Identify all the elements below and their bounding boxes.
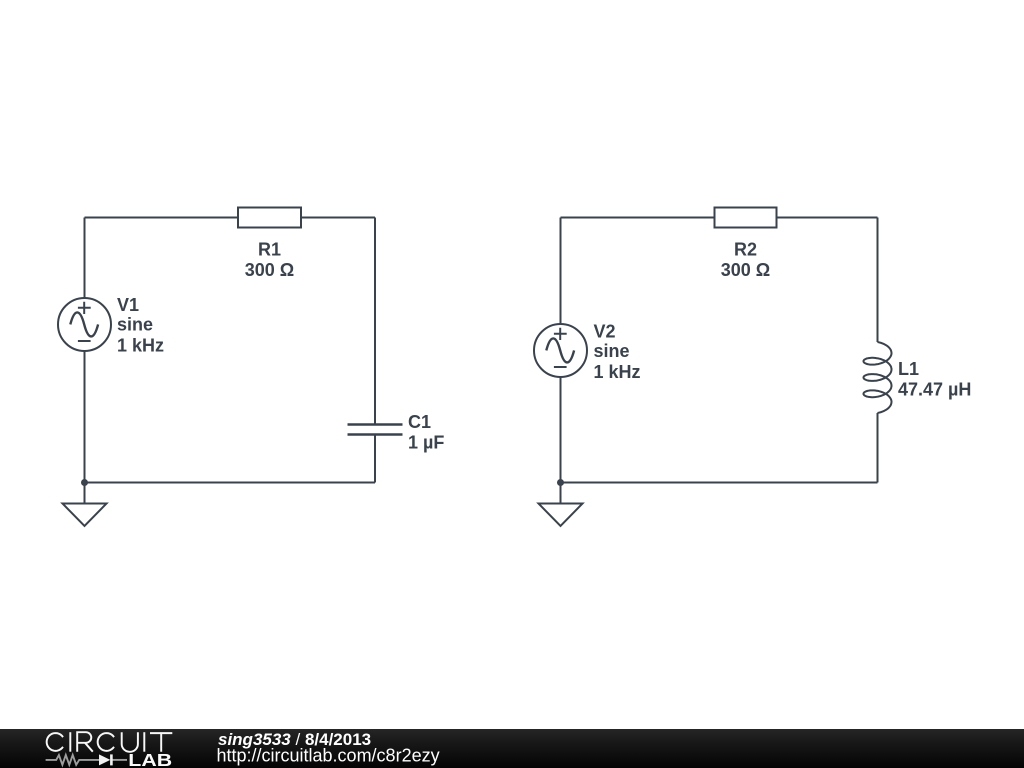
- svg-text:1 µF: 1 µF: [408, 433, 444, 453]
- svg-text:300 Ω: 300 Ω: [245, 260, 294, 280]
- wire: right side of left circuit above C1: [374, 218, 376, 424]
- logo resistor zigzag and wire: [46, 755, 127, 765]
- ground symbol right circuit: [539, 504, 583, 527]
- svg-text:V2: V2: [594, 322, 616, 342]
- svg-text:1 kHz: 1 kHz: [594, 362, 641, 382]
- voltage source V2 plus sign: [554, 328, 567, 340]
- wire: top of right circuit (V2 to R2 to L1 branch): [561, 217, 878, 219]
- svg-text:R1: R1: [258, 240, 281, 260]
- resistor R1: [238, 208, 301, 228]
- wire: left side below V1 to ground node: [84, 351, 86, 483]
- voltage source V1 plus sign: [78, 302, 91, 314]
- capacitor C1 (two plates): [348, 425, 403, 435]
- svg-text:300 Ω: 300 Ω: [721, 260, 770, 280]
- svg-text:47.47 µH: 47.47 µH: [898, 380, 971, 400]
- voltage source V2 minus sign: [554, 366, 567, 368]
- voltage source V1 (circle): [58, 298, 111, 351]
- svg-text:LAB: LAB: [128, 750, 172, 768]
- svg-text:C1: C1: [408, 412, 431, 432]
- resistor R2: [715, 208, 777, 228]
- logo diode triangle: [99, 754, 110, 765]
- voltage source V1 minus sign: [78, 340, 91, 342]
- svg-text:R2: R2: [734, 240, 757, 260]
- svg-text:L1: L1: [898, 359, 919, 379]
- logo wordmark CIRCUIT (thin outline letters): [47, 732, 173, 752]
- svg-text:V1: V1: [117, 295, 139, 315]
- voltage source V2 sine symbol: [546, 338, 574, 362]
- voltage source V2 (circle): [534, 324, 587, 377]
- wire: left side below V2 to ground node: [560, 377, 562, 483]
- wire: left side above V1: [84, 218, 86, 299]
- svg-text:sine: sine: [594, 341, 630, 361]
- voltage source V1 sine symbol: [70, 312, 98, 336]
- wire: right side of right circuit above L1: [877, 218, 879, 343]
- node junction: left circuit ground node: [81, 479, 88, 486]
- wire: bottom of right circuit: [561, 482, 878, 484]
- wire: top of left circuit (V1 to R1 to C1 branch): [85, 217, 376, 219]
- footer bar background: [0, 729, 1024, 768]
- svg-text:1 kHz: 1 kHz: [117, 336, 164, 356]
- wire: left side above V2: [560, 218, 562, 325]
- svg-text:http://circuitlab.com/c8r2ezy: http://circuitlab.com/c8r2ezy: [217, 746, 440, 766]
- logo diode cathode bar: [110, 754, 113, 765]
- node junction: right circuit ground node: [557, 479, 564, 486]
- svg-text:sine: sine: [117, 315, 153, 335]
- wire: right side of left circuit below C1: [374, 436, 376, 483]
- wire: right side of right circuit below L1: [877, 413, 879, 483]
- wire: ground stem right: [560, 483, 562, 504]
- inductor L1 coil: [864, 342, 892, 413]
- wire: ground stem left: [84, 483, 86, 504]
- ground symbol left circuit: [63, 504, 107, 527]
- wire: bottom of left circuit: [85, 482, 376, 484]
